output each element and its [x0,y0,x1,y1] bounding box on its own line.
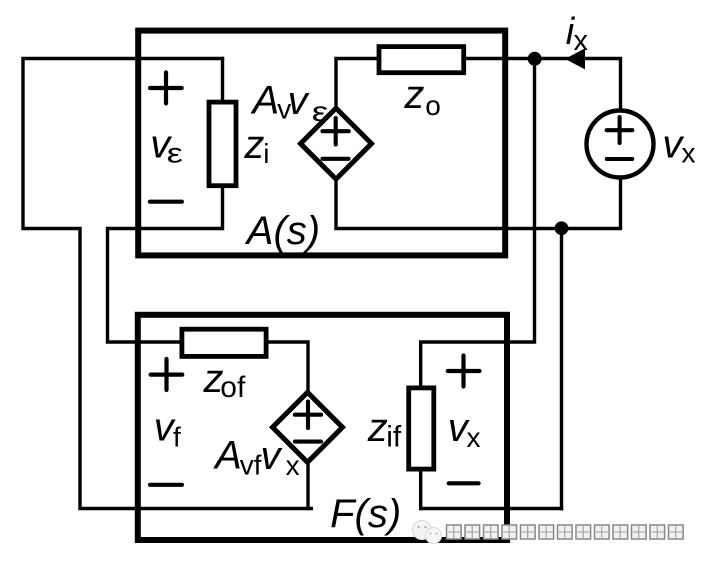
svg-text:o: o [425,90,441,121]
svg-text:z: z [243,123,264,167]
svg-text:of: of [220,371,246,404]
svg-text:ε: ε [312,97,329,128]
svg-text:ε: ε [167,137,183,168]
svg-text:i: i [263,138,269,169]
svg-text:v: v [261,434,283,478]
svg-text:f: f [173,421,181,452]
svg-text:v: v [288,79,310,123]
svg-text:x: x [574,25,589,57]
svg-text:x: x [682,138,696,169]
svg-text:A: A [213,434,242,478]
svg-text:if: if [386,421,402,454]
svg-text:z: z [367,406,388,450]
svg-text:A: A [251,79,280,123]
svg-text:A(s): A(s) [245,209,320,253]
svg-text:x: x [467,422,481,453]
svg-text:x: x [286,450,300,481]
svg-text:F(s): F(s) [330,492,401,536]
svg-text:vf: vf [240,449,262,480]
svg-text:z: z [403,73,424,117]
